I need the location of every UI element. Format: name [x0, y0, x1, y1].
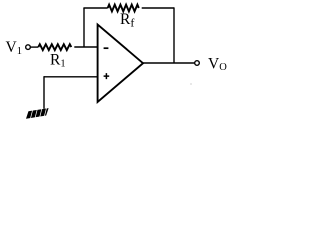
wire feedback top left: [83, 7, 107, 9]
wire output: [143, 62, 195, 64]
input terminal circle: [26, 45, 31, 50]
ground: [25, 107, 50, 119]
output terminal circle: [195, 61, 200, 66]
op-amp plus sign: [104, 73, 110, 79]
resistor R1: [38, 44, 71, 50]
op-amp U1 triangle: [98, 25, 143, 103]
resistor Rf: [108, 5, 139, 12]
wire to ground: [43, 76, 45, 109]
scan speck: [190, 83, 192, 85]
wire feedback left vertical: [83, 8, 85, 47]
wire noninverting input: [44, 76, 98, 78]
wire terminal to R1: [30, 46, 38, 48]
op-amp minus sign: [104, 47, 109, 49]
wire feedback top right: [142, 7, 174, 9]
wire feedback right vertical: [173, 7, 175, 63]
wire R1 to inverting input: [74, 46, 97, 48]
